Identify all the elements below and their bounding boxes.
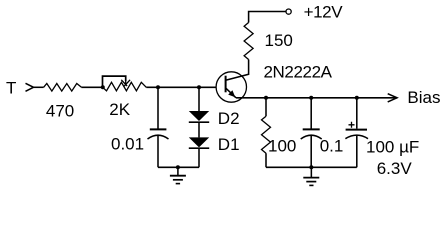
node junction dot diode branch <box>197 85 201 89</box>
transistor emitter lead <box>226 88 236 98</box>
potentiometer 2K wiper loop wire <box>103 76 126 87</box>
wire capacitor 0.1 to bottom rail <box>310 136 312 168</box>
ground right <box>303 167 319 185</box>
+12V terminal circle <box>286 9 291 14</box>
transistor collector lead <box>226 60 249 81</box>
capacitor C 0.01 top plate <box>150 128 167 130</box>
transistor Q1 2N2222A circle <box>216 72 246 102</box>
svg-text:100: 100 <box>268 137 296 156</box>
node junction dot emitter/R100 <box>264 96 268 100</box>
wire down to capacitor 0.01 <box>157 87 159 128</box>
wire capacitor 0.01 to bottom rail <box>157 136 159 168</box>
svg-text:150: 150 <box>265 31 293 50</box>
wire resistor 100 to bottom rail <box>265 153 267 167</box>
wire D1 to bottom rail <box>198 148 200 167</box>
svg-text:470: 470 <box>46 102 74 121</box>
input arrow chevron <box>26 83 34 91</box>
svg-text:2K: 2K <box>109 100 130 119</box>
capacitor C 0.01 curved plate <box>148 135 169 139</box>
capacitor C 100uF top plate <box>346 129 367 131</box>
resistor 150 <box>244 23 253 60</box>
wire 2K to base node <box>146 86 216 88</box>
transistor base bar <box>225 76 227 93</box>
capacitor 100uF plus sign <box>349 122 355 128</box>
svg-text:100 µF: 100 µF <box>366 138 419 157</box>
svg-text:2N2222A: 2N2222A <box>264 62 333 81</box>
ground left <box>170 167 186 183</box>
wire down to capacitor 100uF <box>356 98 358 129</box>
Bias output arrow <box>388 94 397 102</box>
capacitor C 0.1 top plate <box>303 128 320 130</box>
wire bottom-right rail <box>266 166 357 168</box>
svg-text:Bias: Bias <box>407 88 440 107</box>
capacitor C 0.1 curved plate <box>301 135 322 139</box>
transistor emitter arrow <box>228 90 235 97</box>
svg-text:0.1: 0.1 <box>320 137 344 156</box>
node junction dot left ground <box>176 165 180 169</box>
diode D1 <box>189 137 209 147</box>
svg-text:6.3V: 6.3V <box>377 159 413 178</box>
wire down to diode D2 <box>198 87 200 111</box>
svg-text:0.01: 0.01 <box>111 135 144 154</box>
node junction dot left of 2K <box>101 85 105 89</box>
svg-text:T: T <box>6 78 16 97</box>
capacitor C 100uF curved plate <box>345 135 368 139</box>
potentiometer 2K resistor body <box>103 82 147 91</box>
node junction dot 0.1 cap top <box>309 96 313 100</box>
wire capacitor 100uF to bottom rail <box>356 136 358 168</box>
potentiometer 2K wiper arrow <box>121 80 130 86</box>
wire R470 to pot <box>81 86 102 88</box>
node junction dot 100uF top <box>355 96 359 100</box>
svg-text:D1: D1 <box>218 135 240 154</box>
resistor 100 <box>262 116 271 153</box>
diode D2 <box>189 111 209 121</box>
wire collector resistor to +12V corner <box>249 12 286 23</box>
wire D2 to D1 <box>198 122 200 137</box>
wire emitter rail to Bias <box>236 97 397 99</box>
wire input to R470 <box>34 86 44 88</box>
resistor 470 <box>44 84 82 92</box>
wire down to resistor 100 <box>265 98 267 116</box>
svg-text:D2: D2 <box>218 109 240 128</box>
wire bottom-left rail <box>158 166 199 168</box>
svg-text:+12V: +12V <box>304 3 344 22</box>
node junction dot C0.01 branch <box>156 85 160 89</box>
wire down to capacitor 0.1 <box>310 98 312 129</box>
node junction dot right ground <box>309 165 313 169</box>
